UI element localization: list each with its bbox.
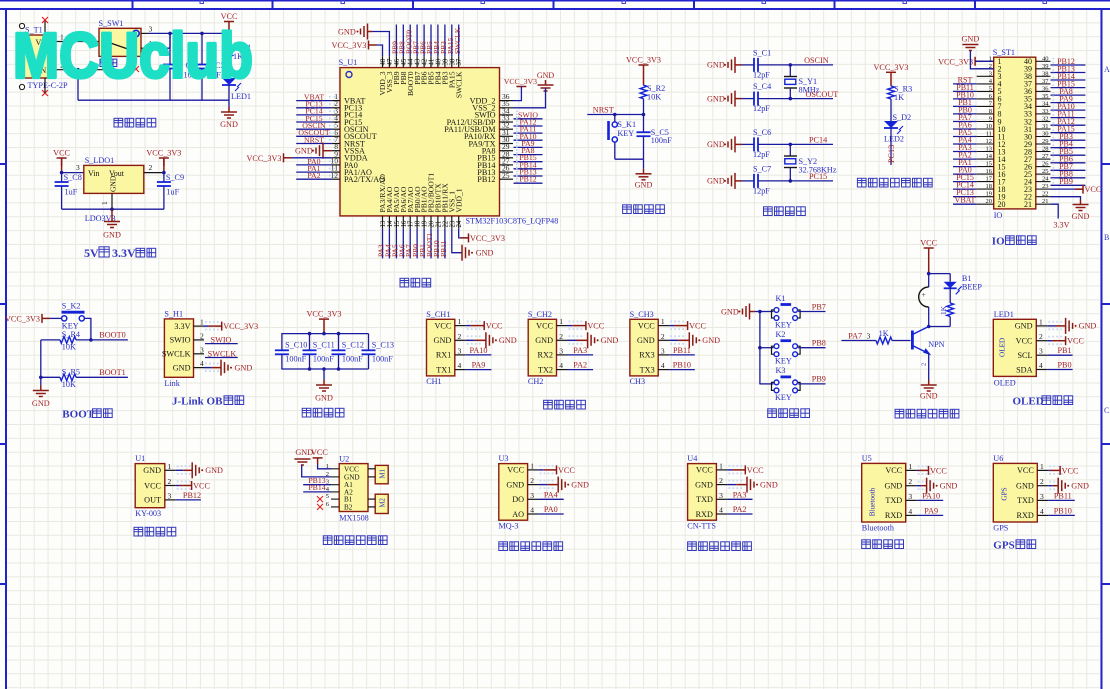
- sheet margin mask: [0, 0, 1110, 8]
- svg-text:K3: K3: [776, 366, 786, 375]
- svg-text:32: 32: [1042, 116, 1049, 123]
- regulator S_LDO1 LDO3V3: [84, 165, 144, 193]
- svg-text:S_C11: S_C11: [313, 341, 335, 350]
- svg-text:PA7: PA7: [848, 331, 862, 340]
- title 晶振电路: [764, 207, 806, 216]
- svg-text:VCC: VCC: [1067, 337, 1084, 346]
- capacitor S_C3 100nF: [201, 33, 203, 64]
- module U2 MX1508 body: [339, 464, 368, 512]
- svg-text:17: 17: [986, 176, 993, 183]
- svg-text:37: 37: [456, 58, 463, 65]
- svg-text:TX3: TX3: [640, 365, 655, 374]
- svg-text:S_D2: S_D2: [893, 113, 912, 122]
- svg-text:VCC: VCC: [930, 466, 947, 475]
- svg-text:AO: AO: [512, 510, 524, 519]
- net PA2 U4 pin4: [727, 513, 752, 515]
- svg-text:S_C1: S_C1: [753, 48, 771, 57]
- svg-text:GND: GND: [940, 482, 958, 491]
- svg-text:1uF: 1uF: [166, 188, 179, 197]
- svg-text:TXD: TXD: [1017, 496, 1034, 505]
- svg-text:GND: GND: [338, 28, 356, 37]
- MCU top net label wires: [395, 25, 397, 57]
- svg-text:VCC: VCC: [1016, 337, 1033, 346]
- svg-text:SCL: SCL: [1017, 351, 1032, 360]
- key K2b PB8: [759, 347, 773, 349]
- svg-text:40: 40: [435, 58, 442, 65]
- ground GND oled pin1: [1047, 325, 1055, 327]
- svg-text:VCC_3V3: VCC_3V3: [626, 56, 661, 65]
- svg-text:SWCLK: SWCLK: [162, 350, 191, 359]
- svg-text:VCC_3V3: VCC_3V3: [938, 57, 973, 66]
- power VCC_3V3 at MCU pin24: [459, 229, 469, 238]
- wire K2 to BOOT0: [84, 318, 91, 340]
- svg-text:3: 3: [168, 491, 172, 500]
- title 主芯片: [400, 278, 431, 287]
- svg-text:PA4: PA4: [544, 490, 558, 499]
- svg-text:24: 24: [456, 220, 463, 227]
- svg-text:VCC: VCC: [696, 466, 713, 475]
- svg-text:OLED: OLED: [994, 379, 1016, 388]
- svg-text:KEY: KEY: [775, 357, 792, 366]
- svg-text:SDA: SDA: [1016, 365, 1032, 374]
- svg-text:S_R4: S_R4: [62, 330, 80, 339]
- title 滤波电路: [302, 408, 344, 417]
- svg-text:1: 1: [458, 317, 462, 326]
- svg-text:OLED: OLED: [1013, 396, 1044, 408]
- svg-text:12pF: 12pF: [753, 150, 770, 159]
- svg-text:GND: GND: [205, 466, 223, 475]
- title 语音播报模块: [688, 542, 752, 551]
- svg-text:PA2: PA2: [573, 361, 587, 370]
- svg-text:100nF: 100nF: [285, 355, 306, 364]
- svg-text:S_CH2: S_CH2: [528, 310, 552, 319]
- net PB1 oled pin3: [1047, 354, 1072, 356]
- MCU U1 STM32F103C8T6 body: [340, 68, 500, 216]
- svg-text:12pF: 12pF: [753, 70, 770, 79]
- svg-text:2: 2: [530, 476, 534, 485]
- title 串口电路: [544, 400, 586, 409]
- svg-text:KY-003: KY-003: [135, 509, 161, 518]
- svg-text:GND: GND: [173, 363, 191, 372]
- net PA0 U3 pin4: [539, 513, 564, 515]
- svg-text:GND: GND: [535, 336, 553, 345]
- svg-text:IO: IO: [994, 211, 1003, 220]
- ground GND alarm: [921, 380, 937, 391]
- svg-text:1uF: 1uF: [65, 188, 78, 197]
- connector S_T1 TYPE-C-2P: [19, 35, 55, 78]
- LED B1 BEEP: [949, 274, 951, 282]
- svg-text:18: 18: [415, 220, 422, 227]
- svg-text:CH1: CH1: [426, 377, 441, 386]
- svg-text:30: 30: [1042, 131, 1049, 138]
- power VCC U3 pin1: [539, 469, 544, 471]
- svg-text:B1: B1: [344, 496, 353, 504]
- net 3.3V ST1 pin21: [1051, 204, 1059, 218]
- svg-text:U2: U2: [339, 455, 349, 464]
- wire SW1-1: [148, 47, 170, 49]
- svg-text:GND: GND: [109, 175, 118, 192]
- svg-text:1: 1: [719, 461, 723, 470]
- svg-text:VCC: VCC: [434, 321, 451, 330]
- svg-text:VCC_3V3: VCC_3V3: [873, 63, 908, 72]
- svg-text:100nF: 100nF: [372, 355, 393, 364]
- module U1 KY-003 body: [135, 464, 165, 508]
- svg-text:14: 14: [986, 153, 993, 160]
- svg-text:GND: GND: [571, 480, 589, 489]
- svg-text:15: 15: [986, 161, 993, 168]
- svg-text:CH2: CH2: [528, 377, 543, 386]
- ground GND S_CH2 pin2: [568, 339, 577, 341]
- svg-text:3: 3: [661, 346, 665, 355]
- svg-text:VCC_3V3: VCC_3V3: [223, 322, 258, 331]
- svg-text:RXD: RXD: [696, 510, 713, 519]
- svg-text:20: 20: [998, 200, 1006, 209]
- wire collector: [929, 326, 951, 328]
- svg-text:VBAT: VBAT: [955, 196, 976, 205]
- svg-text:3.3V: 3.3V: [1053, 221, 1069, 230]
- svg-text:CH3: CH3: [630, 377, 645, 386]
- power VCC S_CH3 pin1: [669, 325, 674, 327]
- svg-text:GND: GND: [1071, 482, 1089, 491]
- svg-text:PB12: PB12: [519, 175, 536, 184]
- svg-text:VDD_1: VDD_1: [454, 188, 463, 212]
- svg-text:PB10: PB10: [673, 361, 691, 370]
- ground GND filter: [323, 369, 325, 380]
- svg-text:32.768KHz: 32.768KHz: [799, 166, 837, 175]
- svg-text:C: C: [1104, 406, 1109, 415]
- wire LDO gnd pin1: [111, 193, 113, 209]
- svg-text:1: 1: [908, 462, 912, 471]
- svg-text:SWCLK: SWCLK: [453, 27, 462, 54]
- svg-text:SWIO: SWIO: [211, 335, 232, 344]
- svg-text:1: 1: [1040, 462, 1044, 471]
- svg-text:GND: GND: [635, 181, 653, 190]
- title 直流电机电路: [323, 536, 387, 545]
- svg-text:GND: GND: [295, 448, 313, 457]
- S_ST1 left pins: [977, 60, 994, 62]
- svg-text:+: +: [922, 290, 926, 299]
- svg-text:1: 1: [661, 317, 665, 326]
- title 霍尔模块: [134, 527, 176, 536]
- crystal S_Y2 32.768KHz: [789, 144, 791, 156]
- svg-text:OLED: OLED: [999, 338, 1007, 357]
- power VCC_3V3 jlink pin1: [204, 325, 208, 327]
- key K3 PB9: [759, 383, 773, 385]
- title 声光报警电路: [895, 409, 959, 418]
- svg-text:PB11: PB11: [1054, 491, 1072, 500]
- no-connect U2 pins 5-6: [317, 496, 323, 510]
- wire alarm top branch: [929, 273, 951, 275]
- svg-text:39: 39: [1042, 63, 1049, 70]
- svg-text:S_K2: S_K2: [62, 302, 81, 311]
- svg-text:VCC: VCC: [53, 149, 70, 158]
- ground GND ldo: [111, 209, 113, 216]
- svg-text:13: 13: [986, 146, 993, 153]
- svg-text:10K: 10K: [62, 380, 76, 389]
- svg-text:GND: GND: [476, 249, 494, 258]
- power VCC_3V3 ST1 pin1: [975, 57, 983, 66]
- svg-text:IO: IO: [992, 236, 1005, 248]
- svg-text:S_R5: S_R5: [62, 368, 80, 377]
- svg-text:PA3: PA3: [733, 490, 747, 499]
- connector S_CH3 CH3 body: [630, 319, 658, 376]
- title 复位电路: [623, 205, 665, 214]
- power VCC U5 pin1: [917, 469, 919, 471]
- power VCC_3V3 indicator: [886, 72, 896, 80]
- title 电源电路: [114, 118, 156, 127]
- svg-text:PB12: PB12: [183, 491, 201, 500]
- power VCC oled pin2: [1047, 340, 1052, 342]
- svg-text:3: 3: [719, 491, 723, 500]
- svg-text:PC14: PC14: [809, 136, 827, 145]
- wire emitter to gnd: [928, 354, 930, 381]
- svg-text:GPS: GPS: [993, 540, 1014, 552]
- svg-text:PB0: PB0: [1057, 361, 1071, 370]
- svg-text:10K: 10K: [62, 343, 76, 352]
- svg-text:J-Link OB: J-Link OB: [172, 396, 223, 408]
- net PB10 S_CH3 pin4: [669, 369, 695, 371]
- svg-text:2: 2: [1039, 332, 1043, 341]
- svg-text:VCC: VCC: [1085, 185, 1102, 194]
- net PB14 U2 pin4: [303, 491, 331, 493]
- power VCC_3V3 boot: [42, 314, 50, 323]
- capacitor S_C13 100nF: [368, 334, 370, 350]
- svg-text:VCC: VCC: [507, 466, 524, 475]
- svg-text:1K: 1K: [939, 305, 948, 315]
- svg-text:36: 36: [1042, 85, 1049, 92]
- svg-text:4: 4: [661, 361, 665, 370]
- svg-text:3: 3: [200, 345, 204, 354]
- key K1 PB7: [759, 311, 773, 313]
- svg-text:Link: Link: [164, 379, 180, 388]
- svg-text:4: 4: [1039, 361, 1043, 370]
- power VCC_3V3 at MCU pin9 VDDA: [284, 153, 292, 162]
- svg-text:OSCIN: OSCIN: [804, 56, 829, 65]
- power VCC S_CH1 pin1: [466, 325, 471, 327]
- S_ST1 right pins: [1036, 60, 1051, 62]
- connector U6 GPS body: [993, 463, 1037, 522]
- svg-text:DO: DO: [512, 495, 524, 504]
- net PA9 U5 pin4: [917, 514, 944, 516]
- svg-text:31: 31: [1042, 123, 1049, 130]
- net PB12 U1 pin3: [176, 499, 201, 501]
- svg-text:GND: GND: [315, 394, 333, 403]
- svg-text:TXD: TXD: [696, 495, 713, 504]
- svg-text:PB8: PB8: [812, 339, 826, 348]
- svg-text:S_C4: S_C4: [753, 82, 771, 91]
- svg-text:5: 5: [326, 493, 329, 500]
- svg-text:PB9: PB9: [1059, 177, 1073, 186]
- MCU right pins 25-36: [500, 100, 514, 102]
- svg-text:RXD: RXD: [1017, 511, 1034, 520]
- svg-text:U5: U5: [862, 454, 872, 463]
- svg-text:M1: M1: [380, 469, 387, 478]
- wire LED to gnd rail: [228, 85, 230, 108]
- power flag VCC ldo: [57, 158, 67, 166]
- svg-text:PB14: PB14: [308, 483, 325, 492]
- svg-text:SWIO: SWIO: [170, 336, 191, 345]
- svg-text:U1: U1: [135, 454, 145, 463]
- title 程序运行指示灯: [857, 178, 932, 187]
- svg-text:S_ST1: S_ST1: [993, 48, 1015, 57]
- svg-text:S_U1: S_U1: [339, 58, 358, 67]
- svg-text:12pF: 12pF: [753, 186, 770, 195]
- svg-text:1: 1: [1039, 317, 1043, 326]
- svg-text:8MHz: 8MHz: [799, 86, 820, 95]
- power VCC_3V3 at MCU pin48: [369, 41, 377, 50]
- svg-text:VCC: VCC: [587, 322, 604, 331]
- svg-text:3.3V: 3.3V: [174, 322, 190, 331]
- svg-text:19: 19: [986, 191, 993, 198]
- svg-text:8: 8: [989, 108, 992, 115]
- svg-text:PB7: PB7: [812, 302, 826, 311]
- svg-text:NRST: NRST: [304, 135, 324, 144]
- ground GND reset: [636, 169, 652, 180]
- capacitor C2 100nF: [169, 33, 171, 64]
- bottom rail power circuit: [78, 99, 229, 101]
- connector S_H1 J-Link body: [164, 319, 193, 377]
- svg-text:38: 38: [1042, 70, 1049, 77]
- ground GND ST1 pin22: [1051, 197, 1081, 200]
- net PA10 U5 pin3: [917, 499, 944, 501]
- svg-text:4: 4: [559, 361, 563, 370]
- svg-text:VCC: VCC: [344, 465, 359, 473]
- svg-text:GND: GND: [721, 307, 739, 316]
- svg-text:24: 24: [1042, 176, 1049, 183]
- svg-text:GND: GND: [707, 61, 725, 70]
- svg-text:3: 3: [908, 492, 912, 501]
- MCU right net labels: [514, 118, 543, 120]
- capacitor S_C12 100nF: [338, 334, 340, 350]
- resistor S_R2 10K: [640, 85, 647, 99]
- svg-text:3: 3: [1039, 347, 1043, 356]
- svg-text:KEY: KEY: [775, 393, 792, 402]
- S_ST1 right net labels: [1051, 64, 1086, 66]
- svg-text:S_K1: S_K1: [617, 120, 636, 129]
- connector LED1 OLED body: [993, 319, 1036, 376]
- MCU left net labels: [296, 100, 332, 102]
- svg-text:2: 2: [908, 477, 912, 486]
- ground GND U3 pin2: [539, 484, 548, 486]
- wire T1 VCC to SW1: [55, 41, 99, 43]
- power flag VCC_3V3 ldo: [159, 158, 169, 166]
- svg-text:GND: GND: [32, 399, 50, 408]
- svg-text:PC13: PC13: [887, 145, 896, 163]
- net PA4 U3 pin3: [539, 498, 564, 500]
- svg-text:S_C12: S_C12: [342, 341, 364, 350]
- svg-text:5: 5: [989, 85, 992, 92]
- svg-text:VCC: VCC: [558, 466, 575, 475]
- svg-text:RX3: RX3: [639, 351, 654, 360]
- motor M1: [375, 465, 388, 483]
- svg-text:34: 34: [1042, 100, 1049, 107]
- filter rails: [281, 333, 368, 335]
- svg-text:1: 1: [100, 201, 109, 205]
- svg-text:GND: GND: [506, 480, 524, 489]
- ground GND U6 pin2: [1048, 485, 1053, 487]
- svg-text:2: 2: [458, 332, 462, 341]
- svg-text:GND: GND: [637, 336, 655, 345]
- connector S_CH1 CH1 body: [427, 319, 455, 376]
- crystal S_Y1 8MHz: [789, 65, 791, 77]
- svg-text:PA9: PA9: [924, 506, 938, 515]
- svg-text:S_C6: S_C6: [753, 128, 771, 137]
- svg-text:1K: 1K: [894, 93, 904, 102]
- svg-text:GND: GND: [295, 147, 313, 156]
- svg-text:3: 3: [530, 491, 534, 500]
- svg-text:GND: GND: [707, 177, 725, 186]
- net PB10 U6 pin4: [1048, 514, 1075, 516]
- svg-text:Bluetooth: Bluetooth: [869, 487, 877, 516]
- svg-text:47: 47: [387, 58, 394, 65]
- svg-text:PB10: PB10: [1054, 506, 1072, 515]
- svg-text:21: 21: [435, 221, 442, 228]
- svg-text:VCC: VCC: [885, 466, 902, 475]
- ground GND S_CH3 pin2: [669, 339, 678, 341]
- transistor Q1 NPN: [911, 331, 914, 350]
- svg-text:BOOT0: BOOT0: [99, 331, 125, 340]
- svg-text:GPS: GPS: [1000, 487, 1008, 500]
- connector S_ST1 IO header body: [994, 57, 1036, 209]
- connector U4 CN-TTS body: [688, 464, 717, 521]
- svg-text:16: 16: [986, 168, 993, 175]
- MCU top pins 37-48: [382, 56, 384, 67]
- svg-text:K2: K2: [776, 330, 786, 339]
- svg-text:3: 3: [1040, 492, 1044, 501]
- wire NRST: [587, 114, 643, 116]
- svg-text:U6: U6: [993, 454, 1003, 463]
- resistor S_R1 1K: [226, 45, 233, 59]
- svg-text:100nF: 100nF: [342, 355, 363, 364]
- svg-text:S_C7: S_C7: [753, 164, 771, 173]
- svg-text:PA10: PA10: [922, 491, 940, 500]
- svg-text:LED1: LED1: [994, 310, 1014, 319]
- svg-text:9: 9: [989, 116, 992, 123]
- svg-text:S_C10: S_C10: [285, 341, 307, 350]
- svg-text:21: 21: [1024, 200, 1032, 209]
- capacitor S_C8 1uF: [61, 173, 63, 182]
- net PA9 S_CH1 pin4: [466, 369, 492, 371]
- net PB0 oled pin4: [1047, 369, 1072, 371]
- svg-text:OUT: OUT: [144, 496, 161, 505]
- svg-text:40: 40: [1042, 55, 1049, 62]
- svg-text:NRST: NRST: [593, 105, 614, 114]
- capacitor S_C9 1uF: [163, 173, 165, 182]
- svg-text:GND: GND: [235, 363, 253, 372]
- power VCC_3V3 at MCU pin36: [516, 86, 526, 88]
- svg-text:2: 2: [168, 477, 172, 486]
- svg-text:4: 4: [719, 506, 723, 515]
- svg-text:11: 11: [986, 131, 992, 138]
- svg-text:Bluetooth: Bluetooth: [862, 523, 894, 532]
- svg-text:VCC_3V3: VCC_3V3: [470, 234, 505, 243]
- LED S_D2: [884, 121, 898, 128]
- MCU left pins 1-12: [332, 100, 340, 102]
- svg-text:22: 22: [1042, 191, 1049, 198]
- svg-text:GND: GND: [920, 392, 938, 401]
- svg-text:2: 2: [719, 476, 723, 485]
- title 蓝牙模块: [862, 540, 904, 549]
- svg-text:GND: GND: [707, 94, 725, 103]
- svg-text:VCC: VCC: [486, 322, 503, 331]
- svg-text:3: 3: [76, 163, 80, 172]
- svg-text:NPN: NPN: [928, 340, 944, 349]
- net PA2 S_CH2 pin4: [568, 369, 594, 371]
- ground GND power circuit: [221, 107, 237, 118]
- svg-text:MQ-3: MQ-3: [499, 521, 519, 530]
- svg-text:2: 2: [661, 332, 665, 341]
- capacitor S_C10 100nF: [281, 334, 283, 350]
